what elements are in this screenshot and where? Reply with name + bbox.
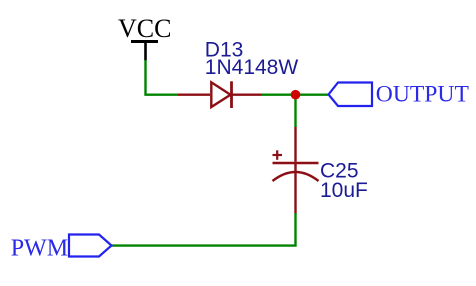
svg-text:1N4148W: 1N4148W (205, 56, 299, 79)
power symbol VCC (118, 14, 171, 61)
wire VCC to diode (146, 60, 179, 95)
junction node (291, 90, 301, 100)
wire junction to capacitor (294, 95, 296, 127)
wire diode to junction to OUTPUT (262, 93, 329, 95)
diode D13 1N4148W (178, 39, 298, 109)
port OUTPUT (329, 81, 470, 107)
svg-text:OUTPUT: OUTPUT (376, 81, 470, 107)
capacitor C25 10uF (273, 127, 368, 213)
wire capacitor to corner (111, 213, 296, 246)
svg-text:10uF: 10uF (320, 179, 368, 202)
svg-text:PWM: PWM (11, 236, 68, 262)
port PWM (11, 235, 112, 262)
svg-text:VCC: VCC (118, 14, 171, 43)
